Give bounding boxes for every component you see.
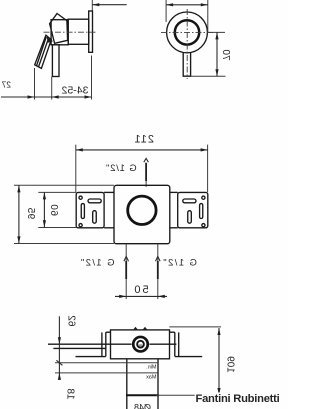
svg-text:Min.: Min. — [146, 365, 157, 371]
central square body — [114, 185, 170, 243]
svg-text:211: 211 — [133, 134, 154, 146]
109 top extension — [169, 326, 221, 328]
left plate vslot2 — [188, 211, 192, 224]
62/18 dimension line — [58, 316, 60, 378]
extension line lever tip — [34, 68, 36, 100]
connector outer ring — [133, 337, 148, 352]
lever inner line — [38, 38, 48, 67]
tilted cap pentagon — [50, 14, 68, 44]
svg-text:Max: Max — [146, 374, 157, 380]
bottom dimension line — [1, 96, 92, 98]
svg-text:G 1/2": G 1/2" — [79, 258, 114, 269]
arrow shared at pipe — [52, 95, 59, 98]
95 dimension line — [18, 185, 20, 243]
top dim extension left — [207, 0, 209, 32]
70 dim bottom extension — [191, 75, 226, 77]
left wing outer vertical — [178, 332, 180, 356]
wall plane extension line — [91, 0, 93, 11]
arrow at wall plane — [92, 3, 99, 6]
top dimension line — [166, 4, 208, 6]
svg-text:Ø48: Ø48 — [134, 403, 151, 409]
outlet down pipe — [52, 45, 59, 77]
neck left bottom — [170, 227, 178, 229]
top G1/2 arrow — [144, 158, 149, 162]
connector center dome — [139, 344, 143, 346]
lever base wedge — [47, 36, 54, 43]
50 dimension line — [115, 295, 167, 297]
cartridge housing — [51, 20, 68, 45]
svg-text:60: 60 — [48, 204, 59, 216]
extension line wall — [91, 56, 93, 100]
svg-text:18: 18 — [65, 388, 76, 400]
right wing outer vertical — [101, 332, 103, 356]
neck right top — [104, 191, 114, 193]
vertical centerline — [186, 9, 188, 79]
connector inner ring — [137, 341, 144, 348]
right plate vslot — [81, 204, 84, 219]
flange plate — [89, 11, 93, 52]
bottom port right line — [125, 244, 127, 299]
tab right — [133, 327, 139, 331]
left plate hole bottom — [202, 224, 205, 227]
right plate vslot2 — [93, 211, 97, 224]
left plate vslot — [200, 204, 203, 219]
right plate hole bottom — [79, 224, 82, 227]
right G1/2 arrow — [124, 256, 129, 261]
lever handle — [35, 35, 52, 68]
bottom port left line — [157, 244, 159, 299]
left wing inner vertical + bridge — [170, 332, 175, 356]
109 bottom extension — [156, 394, 221, 396]
inner block bottom thick — [126, 394, 159, 396]
109 dimension line — [218, 328, 220, 395]
plate top line — [149, 343, 176, 345]
central circle — [128, 196, 156, 224]
svg-text:G 1/2": G 1/2" — [162, 258, 197, 269]
right bracket plate — [76, 192, 104, 227]
svg-text:95: 95 — [25, 207, 36, 219]
left bracket plate — [178, 192, 208, 227]
tab left — [142, 327, 148, 331]
body block — [111, 330, 170, 359]
right wing bottom flat — [76, 356, 106, 358]
svg-text:70: 70 — [220, 49, 231, 61]
95 extension bottom — [14, 243, 114, 245]
extension line pipe edge — [51, 77, 53, 100]
svg-text:34-52: 34-52 — [61, 85, 88, 97]
inner block left side — [157, 359, 159, 409]
right plate hole top — [79, 196, 82, 199]
60 extension top — [38, 191, 76, 193]
centerline — [42, 31, 96, 33]
18 oblique tick — [56, 360, 62, 365]
lever inner line 2 — [36, 37, 46, 66]
svg-text:Fantini Rubinetti: Fantini Rubinetti — [196, 393, 280, 405]
left G1/2 arrow — [156, 256, 161, 261]
18 up arrow below — [58, 373, 61, 380]
right plate hslot — [88, 199, 101, 203]
60 extension bottom — [38, 227, 76, 229]
left wing bottom flat — [175, 356, 202, 358]
70 dimension line — [216, 32, 218, 76]
60 dimension line — [43, 192, 45, 227]
left plate hslot — [183, 199, 196, 203]
outer circle — [167, 12, 208, 53]
inner block right side — [126, 359, 128, 409]
right wing inner vertical + bridge — [106, 332, 111, 356]
horizontal centerline — [161, 31, 213, 33]
left plate hole top — [202, 196, 205, 199]
neck right bottom — [104, 227, 114, 229]
arrow 34-52 at wall — [85, 95, 92, 98]
70 dim top extension — [208, 31, 225, 33]
svg-text:50: 50 — [132, 284, 148, 296]
Max line — [55, 372, 158, 374]
211 extension left — [207, 145, 209, 192]
arrow 27 right outside — [28, 95, 35, 98]
211 dimension line — [76, 149, 208, 151]
plate bottom line — [53, 347, 105, 349]
svg-text:62: 62 — [66, 315, 77, 327]
top dimension line (cropped) — [92, 4, 126, 6]
95 extension top — [14, 184, 114, 186]
Min line — [55, 362, 158, 364]
trim ring — [175, 20, 199, 44]
211 extension right — [75, 145, 77, 192]
svg-text:27: 27 — [1, 80, 11, 90]
mixer body — [68, 19, 89, 44]
lever stem front — [183, 53, 190, 77]
whole drawing mirrored horizontally — [1, 0, 236, 409]
svg-text:G 1/2": G 1/2" — [105, 163, 136, 174]
svg-text:109: 109 — [225, 356, 236, 373]
62 down arrow — [58, 337, 61, 344]
top dim extension right — [165, 0, 167, 22]
neck left top — [170, 191, 178, 193]
